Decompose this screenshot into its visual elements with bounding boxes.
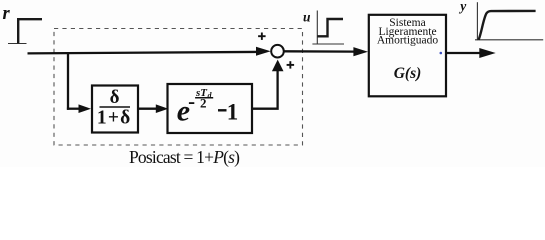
node y label [458, 0, 467, 14]
u step icon axes [312, 11, 344, 45]
wire main input r to summer [28, 52, 261, 54]
wire exp block to summer riser [252, 67, 278, 109]
node r label [3, 4, 11, 24]
y response icon axes [475, 2, 543, 40]
svg-text:Posicast = 1+P(s): Posicast = 1+P(s) [129, 147, 240, 167]
summing junction circle [271, 45, 284, 58]
wire summer to plant block [284, 50, 354, 53]
block delta/(1+delta) [92, 86, 138, 133]
svg-text:1: 1 [227, 99, 239, 124]
block exp(-sTd/2)-1 [168, 84, 253, 133]
wire branch down from main line [67, 52, 69, 110]
arrowhead into plant block [353, 47, 368, 56]
wire delta block to exp block [138, 108, 158, 110]
arrowhead into exp block [156, 104, 169, 113]
arrowhead up into summer [272, 60, 284, 72]
arrowhead output y [479, 48, 495, 58]
r step-input icon baseline [8, 43, 27, 45]
svg-text:r: r [3, 4, 11, 24]
stray blue dot artifact [440, 52, 443, 55]
plus sign lower input [287, 61, 295, 68]
y response icon curve [479, 11, 536, 40]
svg-text:1+δ: 1+δ [97, 108, 132, 129]
svg-text:δ: δ [110, 87, 120, 108]
wire branch to delta block [67, 108, 80, 110]
caption Posicast = 1+P(s) [129, 147, 240, 167]
svg-text:y: y [458, 0, 467, 14]
u step icon curve [318, 19, 344, 36]
svg-text:e: e [177, 95, 190, 128]
svg-text:2: 2 [200, 96, 207, 111]
dashed box Posicast P(s) boundary [54, 29, 303, 146]
plus sign upper input [258, 33, 266, 40]
svg-text:Amortiguado: Amortiguado [377, 35, 439, 47]
arrowhead into delta block [79, 104, 92, 113]
wire plant output [447, 52, 481, 54]
block plant G(s) Sistema Ligeramente Amortiguado [369, 15, 446, 97]
svg-text:u: u [303, 10, 311, 25]
svg-text:G(s): G(s) [394, 65, 422, 82]
r step-input icon step curve [18, 19, 42, 43]
arrowhead into summer from left [256, 47, 271, 56]
node u label [303, 10, 311, 25]
